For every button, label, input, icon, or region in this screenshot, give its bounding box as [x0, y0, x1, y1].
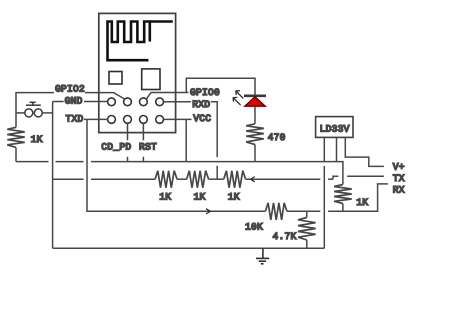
wire TXD branch vertical [87, 119, 265, 211]
svg-text:RXD: RXD [192, 99, 210, 110]
svg-text:470: 470 [268, 132, 286, 143]
wire GND vertical drop [52, 102, 54, 249]
svg-text:TXD: TXD [66, 113, 84, 124]
wire VCC pin to label [164, 118, 192, 120]
wire RXD label bracket down [211, 102, 217, 157]
wire GPIO0 jog up rail to LED [186, 78, 255, 95]
svg-text:1K: 1K [194, 192, 206, 203]
wire R8 bottom to rail C [342, 204, 344, 212]
wire U2 pin3 staircase to V+ [345, 138, 384, 167]
component rect large [142, 69, 160, 90]
component rect small [109, 72, 122, 85]
svg-text:RST: RST [139, 141, 157, 152]
regulator U2 LD33V box [316, 117, 353, 138]
wire RXD drop below rail A [216, 166, 218, 179]
svg-text:10K: 10K [245, 221, 263, 232]
resistor R8 1K right vertical [334, 185, 352, 204]
wire R2 bottom to rail A [254, 145, 256, 162]
svg-text:1K: 1K [228, 192, 240, 203]
wire LED to R2 [254, 106, 256, 124]
wire VCC branch down [185, 119, 187, 161]
pin circles row 2 [108, 116, 164, 124]
wire rail C right segment to RX [328, 184, 388, 211]
arrow right on rail C [206, 209, 211, 214]
svg-text:LD33V: LD33V [320, 123, 350, 134]
node rail A 3.3V horizontal [16, 161, 337, 163]
svg-text:1K: 1K [31, 134, 43, 145]
LED D1 red triangle [245, 97, 265, 106]
node rail B serial divider horizontal [53, 178, 321, 180]
wire GND label left [53, 101, 64, 103]
antenna meander trace [108, 22, 173, 61]
node rail D ground horizontal [53, 247, 325, 249]
wire U2 pin1 GND down [323, 138, 325, 249]
resistor R2 470 vertical [246, 124, 264, 145]
wire TX jog [328, 176, 384, 179]
ground symbol [256, 248, 269, 263]
node rail C segment right of R6 [287, 210, 320, 212]
pin circles row 1 [108, 98, 164, 106]
wire button left [16, 112, 25, 114]
wire button right [42, 112, 52, 114]
wire U2 pin2 jog to R8 [337, 162, 343, 185]
resistor R6 10K horizontal [265, 203, 287, 220]
wire RXD pin to label [164, 101, 191, 103]
wire GPIO2 label to pin diagonal [85, 93, 125, 99]
wire CD_PD stub [127, 123, 129, 161]
pushbutton S1 [25, 102, 43, 117]
svg-text:V+: V+ [393, 161, 405, 172]
wire GND pin [84, 101, 108, 103]
svg-text:GPIO0: GPIO0 [190, 87, 220, 98]
svg-text:1K: 1K [356, 197, 368, 208]
wire R1 bottom to rail A [15, 147, 17, 161]
svg-text:GND: GND [65, 96, 83, 107]
svg-text:1K: 1K [159, 192, 171, 203]
resistor R1 1K left vertical [7, 127, 24, 147]
resistor R4 1K horizontal [187, 171, 209, 188]
arrow left on rail B [251, 177, 255, 182]
wire U2 pin2 Vout down [336, 138, 338, 162]
module U1 ESP-01 body [99, 13, 176, 132]
resistor R5 1K horizontal [224, 171, 246, 188]
LED D1 cathode bar [244, 95, 266, 98]
wire GPIO0 pin diagonal to label [146, 93, 188, 100]
svg-text:TX: TX [393, 173, 405, 184]
resistor R7 4.7K vertical [298, 211, 316, 248]
svg-text:VCC: VCC [193, 113, 211, 124]
LED D1 arrows [233, 91, 243, 105]
svg-text:RX: RX [393, 184, 405, 195]
svg-text:CD_PD: CD_PD [101, 141, 131, 152]
svg-text:GPIO2: GPIO2 [55, 84, 85, 95]
svg-text:4.7K: 4.7K [273, 231, 297, 242]
wire GPIO2 left rail top [16, 93, 54, 128]
wire TXD pin [84, 118, 108, 120]
resistor R3 1K horizontal [155, 171, 177, 188]
wire RST stub [142, 123, 144, 161]
